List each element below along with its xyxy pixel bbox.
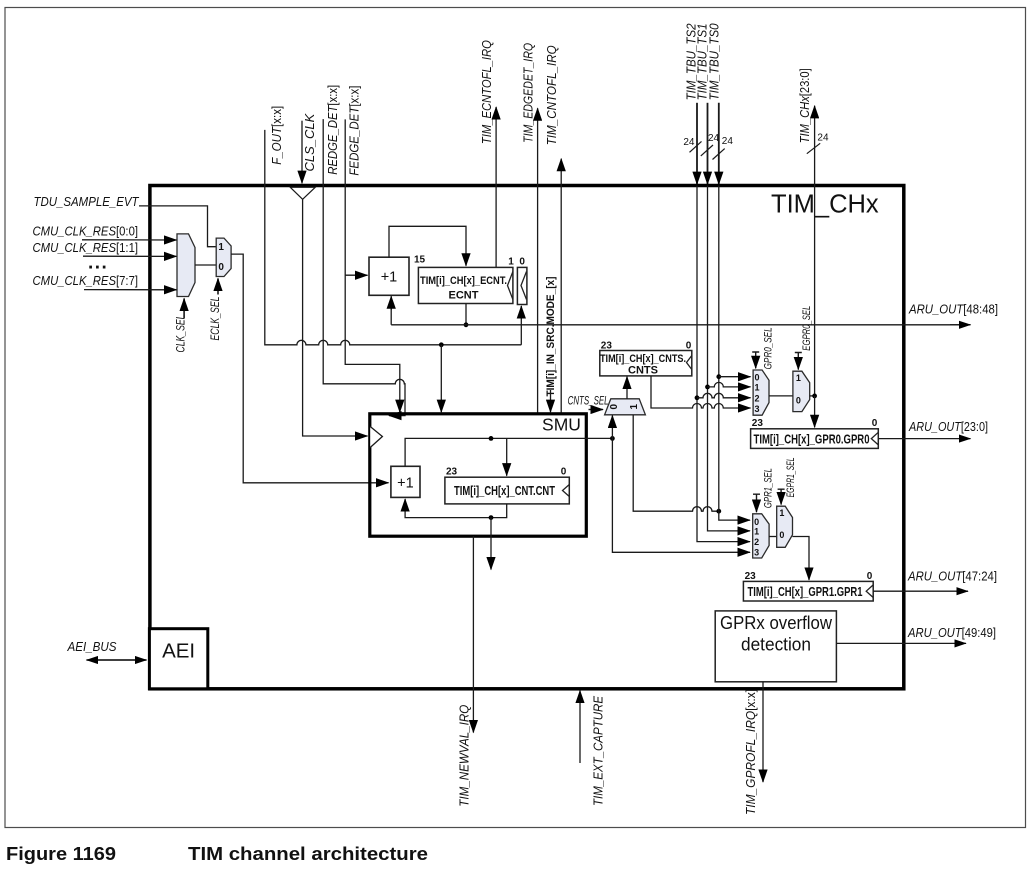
svg-text:0: 0 [519, 256, 525, 267]
mux EGPR1_SEL [777, 506, 793, 547]
wire ECNT feedback loop [389, 226, 466, 265]
bus slash TS2 [690, 141, 702, 152]
node TS2 to GPR0 mux input 2 [695, 395, 700, 400]
register TIM[i]_CH[x]_CNTS.CNTS [600, 351, 692, 376]
wire TIM_GPROFL_IRQ[x:x] down arrow [762, 682, 764, 782]
wire TIM_EXT_CAPTURE up arrow into block [579, 691, 581, 763]
wire MODE arrow into SMU [550, 390, 552, 412]
arrow into +1 bottom [390, 296, 392, 310]
wire CLS_CLK arrow into block [301, 121, 303, 184]
node TS0 branch [716, 509, 721, 514]
mux CLK_SEL [177, 234, 195, 297]
svg-text:...: ... [88, 253, 108, 274]
funnel clock input [290, 187, 315, 199]
svg-text:1: 1 [779, 508, 784, 518]
TIM_CHx main block [150, 186, 904, 689]
svg-text:ARU_OUT[49:49]: ARU_OUT[49:49] [907, 625, 996, 640]
node SMU internal [489, 436, 494, 441]
wire ARU_OUT[47:24] [873, 590, 968, 592]
wire CNTS_SEL mux output up into CNTS register [626, 377, 628, 399]
wire GPR0 mux input 2 with hops over TS1 TS0 [697, 393, 751, 397]
svg-text:TDU_SAMPLE_EVT: TDU_SAMPLE_EVT [34, 194, 140, 209]
svg-text:1: 1 [754, 526, 759, 536]
svg-text:+1: +1 [397, 476, 414, 492]
svg-text:1: 1 [629, 404, 640, 410]
wire GPR0_SEL select arrow [752, 352, 759, 368]
wire arrow down into CNT register [506, 438, 508, 475]
svg-text:TIM_CHx[23:0]: TIM_CHx[23:0] [797, 68, 812, 143]
wire CMU_CLK_RES[0:0] into CLK_SEL mux [82, 239, 177, 241]
mux EGPR0_SEL [793, 371, 810, 411]
wire EGPR1_SEL select arrow [778, 489, 785, 504]
svg-text:2: 2 [755, 393, 760, 403]
svg-text:TIM[i]_CH[x]_ECNT.: TIM[i]_CH[x]_ECNT. [420, 275, 507, 287]
wire TIM_NEWVAL_IRQ from SMU bottom [472, 536, 474, 732]
wire ECLK_SEL select arrow [217, 279, 219, 295]
svg-text:CLK_SEL: CLK_SEL [175, 315, 187, 353]
chevron CNTS register [687, 356, 692, 370]
svg-text:TIM_ECNTOFL_IRQ: TIM_ECNTOFL_IRQ [479, 40, 494, 144]
svg-text:TIM_TBU_TS0: TIM_TBU_TS0 [707, 23, 722, 101]
svg-text:24: 24 [722, 136, 734, 147]
wire GPR1_SEL select arrow [753, 494, 760, 512]
svg-text:FEDGE_DET[x:x]: FEDGE_DET[x:x] [347, 86, 362, 176]
svg-text:23: 23 [752, 418, 764, 429]
incrementer +1 (ECNT) [369, 257, 409, 295]
svg-text:TIM_GPROFL_IRQ[x:x]: TIM_GPROFL_IRQ[x:x] [743, 689, 758, 815]
svg-text:TIM[i]_IN_SRC.MODE_[x]: TIM[i]_IN_SRC.MODE_[x] [545, 276, 557, 396]
register TIM[i]_CH[x]_GPR1.GPR1 [743, 581, 873, 601]
wire F_OUT branch down into SMU [440, 345, 442, 412]
wire TDU_SAMPLE_EVT to ECLK mux input 1 [139, 206, 216, 247]
svg-text:0: 0 [779, 530, 784, 540]
wire F_OUT up into ECNT bit0 [520, 306, 522, 345]
svg-text:CMU_CLK_RES[1:1]: CMU_CLK_RES[1:1] [33, 240, 139, 255]
svg-text:ECLK_SEL: ECLK_SEL [210, 297, 222, 341]
register TIM[i]_CH[x]_CNT.CNT [445, 477, 569, 504]
mux ECLK_SEL [216, 238, 231, 276]
wire TIM_CNTOFL_IRQ up arrow from SMU [560, 159, 562, 414]
wire TIM_TBU_TS2 into block [696, 103, 698, 184]
svg-text:AEI: AEI [162, 640, 195, 663]
wire TIM_TBU_TS1 into block [707, 103, 709, 184]
svg-text:SMU: SMU [542, 415, 581, 435]
svg-text:23: 23 [601, 340, 613, 351]
chevron ECNT bit0 [521, 272, 527, 300]
wire ARU_OUT[49:49] [836, 642, 966, 644]
wire TIM_TBU_TS0 into block [718, 103, 720, 184]
svg-text:CNTS: CNTS [628, 364, 658, 376]
svg-text:1: 1 [508, 257, 514, 268]
wire EGPR0_SEL select arrow [795, 353, 802, 370]
wire CLK mux output to ECLK mux [195, 264, 216, 266]
wire down into GPR0 register [814, 396, 816, 427]
svg-text:ARU_OUT[23:0]: ARU_OUT[23:0] [908, 419, 988, 434]
svg-text:TIM channel architecture: TIM channel architecture [188, 844, 428, 864]
svg-text:0: 0 [872, 418, 878, 429]
wire CMU_CLK_RES[1:1] into CLK_SEL mux [83, 255, 177, 257]
node TS0 to GPR0 mux input 0 [716, 374, 721, 379]
svg-text:0: 0 [867, 571, 873, 582]
bus slash TS1 [701, 145, 713, 156]
wire CLS_CLK down to SMU clock chevron [303, 199, 368, 436]
wire TIM_CHx[23:0] output up arrow [814, 106, 816, 396]
wire ECNT bottom output junction [465, 304, 467, 325]
svg-text:ECNT: ECNT [449, 289, 479, 301]
wire CLK_SEL select arrow [183, 299, 185, 319]
clock chevron on SMU left edge [370, 427, 382, 448]
wire dangling output below SMU [490, 518, 492, 570]
wire GPR1 mux output to EGPR1 mux [769, 536, 776, 538]
svg-text:TIM[i]_CH[x]_CNT.CNT: TIM[i]_CH[x]_CNT.CNT [454, 484, 555, 498]
svg-text:CMU_CLK_RES[7:7]: CMU_CLK_RES[7:7] [33, 273, 139, 288]
svg-text:CNTS_SEL: CNTS_SEL [568, 396, 609, 408]
svg-text:TIM_CNTOFL_IRQ: TIM_CNTOFL_IRQ [544, 45, 559, 145]
svg-text:F_OUT[x:x]: F_OUT[x:x] [269, 106, 284, 165]
wire SMU internal top line and output [405, 438, 612, 467]
svg-text:CLS_CLK: CLS_CLK [302, 112, 317, 171]
svg-text:3: 3 [754, 548, 759, 558]
svg-text:1: 1 [218, 242, 224, 253]
svg-text:EGPR1_SEL: EGPR1_SEL [785, 457, 797, 497]
svg-text:ARU_OUT[48:48]: ARU_OUT[48:48] [908, 302, 998, 317]
register TIM[i]_CH[x]_GPR0.GPR0 [751, 429, 879, 449]
svg-text:24: 24 [817, 132, 829, 143]
svg-text:23: 23 [745, 571, 757, 582]
svg-text:CMU_CLK_RES[0:0]: CMU_CLK_RES[0:0] [33, 223, 139, 238]
svg-text:0: 0 [755, 372, 760, 382]
svg-text:TIM[i]_CH[x]_GPR1.GPR1: TIM[i]_CH[x]_GPR1.GPR1 [748, 584, 863, 599]
svg-text:TIM_NEWVAL_IRQ: TIM_NEWVAL_IRQ [456, 705, 471, 807]
svg-text:24: 24 [708, 133, 720, 144]
wire CMU_CLK_RES[7:7] into CLK_SEL mux [84, 289, 177, 291]
svg-text:TIM_EXT_CAPTURE: TIM_EXT_CAPTURE [591, 696, 606, 806]
wire CNT bottom feedback [405, 499, 507, 518]
chevron GPR1 register [866, 585, 873, 598]
wire REDGE_DET down, right with hop, into SMU top edge [323, 119, 405, 416]
wire GPR0 mux input 0 [719, 376, 751, 378]
svg-text:EGPR0_SEL: EGPR0_SEL [801, 306, 813, 351]
wire TBU_TS1 inside block [708, 186, 751, 531]
svg-text:TIM_CHx: TIM_CHx [771, 191, 879, 219]
wire CNTS_SEL input 1 from TBU_TS0 branch [633, 415, 719, 511]
svg-text:TIM_EDGEDET_IRQ: TIM_EDGEDET_IRQ [520, 43, 535, 143]
svg-text:0: 0 [609, 404, 620, 410]
block GPRx overflow detection [715, 611, 836, 682]
svg-text:GPR1_SEL: GPR1_SEL [763, 468, 775, 508]
wire TBU_TS0 inside block [719, 186, 750, 521]
svg-text:0: 0 [796, 395, 801, 405]
register ECNT bit0 narrow box [517, 267, 527, 304]
svg-text:GPRx overflow: GPRx overflow [720, 612, 833, 633]
svg-text:Figure 1169: Figure 1169 [6, 844, 116, 864]
svg-text:1: 1 [796, 373, 801, 383]
mux CNTS_SEL [605, 399, 646, 415]
SMU block [370, 414, 587, 536]
svg-text:15: 15 [414, 255, 426, 266]
svg-text:23: 23 [446, 466, 458, 477]
wire ECLK mux output to SMU +1 [231, 254, 388, 483]
wire junction down to GPR1 mux input 3 [612, 438, 750, 552]
node SMU output junction [610, 436, 615, 441]
chevron CNT register [563, 485, 570, 497]
wire junction up into CNTS_SEL mux input 0 [611, 415, 613, 438]
svg-text:1: 1 [755, 383, 760, 393]
svg-text:0: 0 [561, 466, 567, 477]
bus slash TIM_CHx [807, 143, 820, 153]
svg-text:TIM[i]_CH[x]_GPR0.GPR0: TIM[i]_CH[x]_GPR0.GPR0 [754, 431, 870, 446]
svg-text:+1: +1 [381, 270, 398, 286]
svg-text:detection: detection [741, 634, 811, 655]
wire CNTS_SEL select arrow [589, 409, 604, 411]
wire CNTS output to GPR0 mux input 3 with hops [651, 376, 751, 408]
svg-text:0: 0 [686, 340, 692, 351]
wire GPR0 mux output to EGPR0 mux [769, 395, 793, 397]
svg-text:3: 3 [755, 404, 760, 414]
wire FEDGE_DET down to ECNT +1 branch and SMU top [345, 119, 400, 412]
register TIM[i]_CH[x]_ECNT.ECNT [418, 267, 513, 303]
svg-text:ARU_OUT[47:24]: ARU_OUT[47:24] [907, 569, 997, 584]
svg-text:TIM[i]_CH[x]_CNTS.: TIM[i]_CH[x]_CNTS. [600, 353, 686, 365]
wire TIM_EDGEDET_IRQ up arrow from SMU [537, 108, 539, 414]
wire FEDGE branch arrow into ECNT +1 [345, 274, 367, 276]
svg-text:2: 2 [754, 537, 759, 547]
node CNT bottom [489, 515, 494, 520]
svg-text:0: 0 [754, 517, 759, 527]
arrowhead ARU_OUT[48:48] [950, 324, 971, 326]
mux GPR0_SEL [753, 370, 769, 415]
svg-text:GPR0_SEL: GPR0_SEL [762, 327, 774, 369]
wire ARU_OUT[23:0] [878, 438, 970, 440]
wire TIM_ECNTOFL_IRQ up arrow [495, 107, 497, 267]
chevron GPR0 register [871, 432, 878, 445]
mux GPR1_SEL [753, 514, 769, 558]
bus slash TS0 [713, 149, 725, 160]
wire AEI_BUS double arrow [87, 659, 147, 661]
wire EGPR1 output down into GPR1 register [793, 537, 810, 580]
node ECNT output [464, 322, 469, 327]
node EGPR0 output junction [812, 394, 817, 399]
wire F_OUT vertical and horizontal with hops to bit0 register [265, 130, 522, 345]
svg-text:REDGE_DET[x:x]: REDGE_DET[x:x] [325, 85, 340, 175]
wire GPR0 mux input 1 with hop over TS0 [708, 382, 751, 387]
svg-text:24: 24 [683, 137, 695, 148]
wire ARU_OUT[48:48] line [391, 297, 970, 325]
svg-text:AEI_BUS: AEI_BUS [67, 639, 117, 654]
svg-text:0: 0 [218, 262, 224, 273]
chevron ECNT register [508, 272, 513, 300]
incrementer +1 (SMU) [391, 466, 420, 497]
AEI block [149, 629, 207, 689]
wire TBU_TS2 inside block [697, 186, 750, 542]
wire EGPR0 output to junction [810, 395, 815, 397]
node F_OUT branch [439, 342, 444, 347]
node TS1 to GPR0 mux input 1 [705, 385, 710, 390]
